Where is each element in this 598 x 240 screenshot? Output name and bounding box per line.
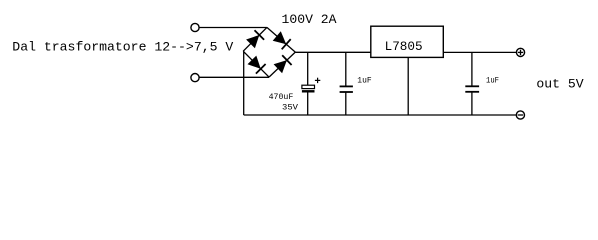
svg-text:L7805: L7805 <box>385 39 423 54</box>
wire regulator ground pin to ground rail <box>407 57 409 115</box>
regulator U1 L7805 box <box>371 26 444 57</box>
capacitor C1 470uF negative plate <box>302 90 315 92</box>
capacitor C1 470uF positive lead <box>307 52 309 85</box>
svg-text:Dal trasformatore 12-->7,5 V: Dal trasformatore 12-->7,5 V <box>12 40 233 55</box>
terminal output negative (-) <box>516 111 524 119</box>
bridge rectifier diamond outline <box>243 27 295 77</box>
diode D3 (left vertex to bottom vertex) <box>248 56 266 74</box>
polarity plus sign of C1 <box>315 78 320 83</box>
svg-text:470uF: 470uF <box>269 92 294 102</box>
svg-text:35V: 35V <box>282 102 299 112</box>
diode D2 (top vertex to right vertex) <box>273 31 291 49</box>
capacitor C3 1uF ground lead <box>471 92 473 115</box>
svg-text:100V 2A: 100V 2A <box>282 12 337 27</box>
terminal AC input top <box>191 23 199 31</box>
label: 35V <box>282 102 299 112</box>
capacitor C1 470uF negative lead <box>307 93 309 116</box>
capacitor C2 1uF input lead <box>345 52 347 86</box>
capacitor C3 1uF plates <box>465 86 479 92</box>
capacitor C2 1uF ground lead <box>345 92 347 115</box>
label: L7805 <box>385 39 423 54</box>
wire AC bottom input to bridge bottom vertex <box>199 76 269 78</box>
wire bridge left vertex (DC-) down to ground rail <box>243 51 245 115</box>
label: 1uF (C2) <box>357 76 371 86</box>
wire bridge right vertex (DC+) to regulator input <box>295 51 371 53</box>
label: 1uF (C3) <box>486 76 499 86</box>
capacitor C3 1uF output lead <box>471 52 473 86</box>
capacitor C2 1uF plates <box>340 86 353 92</box>
label: out 5V <box>536 76 583 91</box>
capacitor C1 470uF positive plate (box) <box>302 85 315 88</box>
svg-text:out 5V: out 5V <box>536 76 583 91</box>
wire regulator output to +5V terminal <box>443 51 516 53</box>
svg-text:1uF: 1uF <box>357 76 371 86</box>
wire ground rail (bottom) <box>244 114 517 116</box>
label: 470uF <box>269 92 294 102</box>
svg-text:1uF: 1uF <box>486 76 499 86</box>
wire AC top input to bridge top vertex <box>199 27 267 29</box>
label: Dal trasformatore 12 to 7,5 V <box>12 40 233 55</box>
diode D4 (bottom vertex to right vertex) <box>274 55 292 73</box>
label: 100V 2A bridge rating <box>282 12 337 27</box>
diode D1 (left vertex to top vertex) <box>246 30 264 48</box>
terminal AC input bottom <box>191 74 199 82</box>
terminal output positive (+) <box>516 48 524 56</box>
